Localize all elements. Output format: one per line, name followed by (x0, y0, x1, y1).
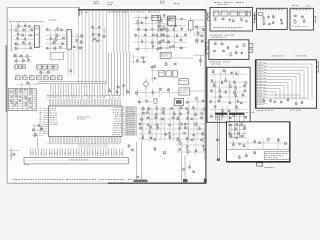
cluster top R4xx (137, 98, 157, 106)
parts rows I1 (130, 55, 147, 65)
pin ticks outside right border (203, 131, 206, 143)
wire band right of block A (8 long verticals) (79, 10, 107, 84)
label above U-T3 (293, 5, 310, 6)
tuner IC row inside (214, 11, 251, 16)
label above node V1 (86, 11, 88, 14)
boxed part grid D3 (37, 65, 59, 71)
schematic sheet background (0, 0, 320, 191)
labels above tuner box (214, 2, 243, 5)
U-T5 parts bottom (210, 105, 248, 121)
switch row SW1-SW7 (16, 75, 63, 80)
parts group B1 (91, 25, 101, 43)
CRT box right tab (317, 62, 319, 72)
parts on mid verticals (108, 84, 129, 94)
capacitor grid between U101 and U102 (46, 27, 67, 50)
mid vertical wires continue (109, 53, 130, 96)
horizontal pair wires mid sheet (36, 82, 107, 84)
main sheet border frame (6, 8, 207, 184)
U-T4 left tabs (205, 43, 209, 54)
IC401 top pin labels (47, 95, 121, 98)
vertical wires below U102 (68, 49, 74, 75)
transistor Q301 (144, 79, 149, 91)
tuner parts inside (214, 17, 247, 23)
key matrix connector table (8, 89, 36, 111)
label right of bars (246, 110, 262, 113)
parts cluster D4 (38, 69, 51, 75)
IC U101 (33, 26, 40, 48)
parts group B2 (102, 27, 107, 38)
bottom connector strip CN401 (24, 158, 128, 164)
IC401 bottom pin tick comb (49, 137, 120, 143)
parts rows I5 (134, 88, 179, 97)
label row under bus (108, 11, 160, 14)
labels above CRT box (272, 55, 307, 58)
cluster I3 with boxes (150, 66, 177, 84)
IC401 top pin tick comb (49, 99, 120, 106)
wires to right border (193, 20, 206, 40)
extra center parts field (154, 62, 177, 68)
U-T2 sub IC (259, 13, 263, 16)
cluster M2 (154, 147, 156, 151)
box I6 (179, 88, 190, 95)
label left of power box (215, 117, 225, 120)
power box bottom tab (257, 163, 263, 166)
loop wire rectangle (51, 52, 64, 60)
L-wire along border with part (193, 55, 205, 66)
long wires to bottom border (137, 142, 142, 182)
IC401 bottom pin labels (48, 142, 121, 145)
wires right mid (171, 58, 206, 91)
box with dark interior J1 (174, 99, 183, 106)
CRT board box U-T6 frame (256, 60, 317, 108)
U-T5 parts top (210, 69, 248, 79)
IC401 left pin ticks and labels (40, 107, 49, 133)
vertical bus drop wires (114, 10, 129, 53)
U-T3 bottom label (293, 25, 309, 28)
parts M7 near lower right (189, 160, 195, 173)
vertical comb to CPU top (51, 84, 106, 98)
CPU bottom label comb right part (79, 143, 107, 148)
part M3 (163, 151, 166, 155)
caption text line bottom (13, 179, 146, 180)
tuner right tab (253, 15, 255, 23)
filter box F101 (188, 18, 193, 33)
CRT box pin row double column (258, 63, 267, 105)
wire vertical left rail (9, 24, 15, 52)
IC401 inside left pin names (50, 108, 58, 125)
resistor group right of U102 (73, 34, 84, 51)
power box interior vertical wires (230, 122, 244, 138)
vertical wire pair bottom right (182, 156, 188, 184)
power box internal bus wire (227, 148, 290, 150)
oscillator parts field (134, 14, 170, 52)
connector bar CN902 (229, 113, 245, 115)
sub-board box U-T3 frame (290, 8, 313, 30)
power supply box U-T7 frame (227, 122, 291, 162)
U-T5 bridge parts (210, 79, 248, 105)
parts rows D1 (13, 54, 32, 64)
tuner left connector tabs (207, 13, 210, 20)
audio amp box U-T5 frame (207, 67, 250, 122)
labels between tuner and AV box (210, 35, 234, 38)
parts near right border (195, 25, 206, 46)
parts row D5 (16, 81, 38, 88)
wire pair down left side of power box (216, 115, 220, 161)
U-T2 parts (262, 15, 283, 26)
IC U103 (168, 16, 176, 27)
U-T4 right tabs (249, 44, 253, 53)
small boxes below U-T5 (235, 124, 253, 132)
cluster top-right J2 (186, 97, 206, 106)
U-T4 parts (213, 42, 245, 57)
U-T2 title text (259, 8, 283, 11)
bottom-right transistor field M5 (176, 140, 206, 155)
labels below CRT box (262, 109, 301, 112)
power box label table (264, 152, 289, 160)
component field right of IC401 (139, 106, 206, 142)
U-T2 left tabs (254, 13, 256, 20)
CRT box vertical wires nest (276, 64, 312, 100)
wires from bars into power box (230, 115, 244, 122)
boxed part row D2 (15, 65, 26, 69)
top power bus wire (78, 8, 206, 17)
label below U-T4 (210, 61, 230, 64)
comb from IC401 to bottom connector (30, 148, 122, 156)
microcontroller IC401 (49, 106, 123, 137)
vertical wires in right-of-CPU field (143, 107, 197, 142)
power box top-left dense cluster (228, 123, 247, 140)
box I4 (179, 79, 188, 85)
label below power box (265, 166, 275, 169)
tuner bottom label strip (214, 26, 243, 29)
label row block A (10, 20, 56, 23)
tuner box shield U-T1 frame (210, 8, 253, 32)
IC401 right pin ticks with label boxes (122, 107, 137, 136)
U-T3 parts (294, 14, 305, 24)
tuner interface parts (157, 17, 187, 51)
connector bar CN901 (215, 113, 227, 115)
labelled box pair I2 (160, 52, 171, 58)
power box bottom-left parts (238, 151, 256, 159)
power box middle component row (228, 138, 288, 150)
tiny part M6 (182, 168, 184, 171)
IC401 inside right pin names (112, 107, 122, 135)
bottom center cluster M4 (134, 175, 148, 182)
discrete parts ladder left of U101 (15, 24, 34, 51)
wire along right border (203, 10, 205, 160)
sub-board box U-T2 frame (257, 8, 288, 29)
transistor cluster M1 (128, 144, 134, 151)
left bottom parts (8, 148, 20, 161)
sub-block K parts left of CPU bottom (32, 124, 44, 148)
AV input box U-T4 frame (209, 40, 249, 60)
U-T3 title text (293, 8, 311, 11)
CRT box horizontal wires (265, 64, 313, 98)
marks below connector left end (24, 163, 28, 166)
CRT box bottom parts strip (263, 98, 303, 105)
crystal X101 (152, 15, 161, 20)
IC U102 (66, 30, 73, 50)
U-T3 right tab (313, 17, 315, 23)
sheet top margin reference text (94, 1, 180, 5)
